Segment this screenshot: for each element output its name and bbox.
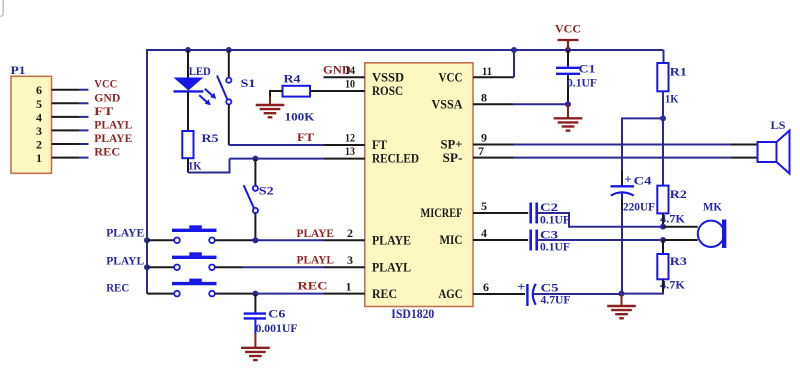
- microphone MK: [698, 200, 727, 249]
- wire P1 pin4 stub: [52, 116, 89, 118]
- capacitor C1: [556, 50, 597, 104]
- pin 4 stub (MIC): [473, 239, 528, 241]
- svg-text:LED: LED: [189, 64, 211, 78]
- wire P1 pin3 stub: [52, 129, 89, 131]
- wire C6 top lead: [254, 294, 256, 312]
- wire R3 top lead: [662, 240, 664, 254]
- svg-text:P1: P1: [11, 63, 26, 77]
- svg-text:REC: REC: [372, 286, 397, 301]
- pin 2 stub (PLAYE): [324, 239, 365, 241]
- svg-text:1K: 1K: [665, 92, 679, 106]
- wire LED anode from rail: [187, 50, 189, 78]
- svg-text:MK: MK: [703, 200, 723, 214]
- node rail-pin11 junction: [511, 47, 517, 53]
- pin 12 stub (FT): [324, 144, 365, 146]
- svg-text:PLAYL: PLAYL: [94, 117, 132, 131]
- pin names right column: [421, 70, 464, 302]
- ground at C6: [241, 334, 270, 361]
- svg-text:PLAYL: PLAYL: [372, 260, 411, 275]
- svg-text:LS: LS: [771, 118, 786, 132]
- svg-text:4: 4: [36, 110, 42, 124]
- svg-text:100K: 100K: [285, 109, 316, 123]
- resistor R2: [657, 186, 687, 226]
- capacitor C3: [531, 227, 570, 253]
- svg-text:11: 11: [482, 64, 492, 78]
- resistor R4: [283, 71, 316, 123]
- svg-text:ROSC: ROSC: [372, 83, 403, 98]
- capacitor C5 polarized: [517, 279, 571, 307]
- wire left button bus: [146, 49, 148, 294]
- pin 6 stub (AGC): [473, 293, 525, 295]
- wire C5 to AGC junction: [533, 293, 622, 295]
- svg-text:4: 4: [481, 226, 487, 240]
- svg-text:C6: C6: [268, 307, 285, 321]
- svg-text:PLAYL: PLAYL: [297, 253, 335, 267]
- capacitor C4: [611, 170, 656, 294]
- svg-text:3: 3: [347, 253, 353, 267]
- pin 1 stub (REC): [324, 293, 365, 295]
- svg-text:VCC: VCC: [94, 77, 117, 91]
- svg-text:R2: R2: [670, 187, 687, 201]
- node PLAYE net junction: [252, 237, 258, 243]
- svg-text:0.1UF: 0.1UF: [567, 75, 597, 89]
- wire R3 bottom to AGC net: [622, 279, 665, 293]
- svg-text:0.001UF: 0.001UF: [256, 321, 298, 335]
- push button PLAYE S3: [147, 225, 255, 243]
- node R1-C4 junction: [660, 115, 666, 121]
- svg-text:GND: GND: [94, 90, 120, 104]
- svg-text:RECLED: RECLED: [372, 151, 419, 166]
- svg-text:PLAYE: PLAYE: [372, 233, 411, 248]
- wire pin11 to rail: [513, 50, 515, 77]
- node rail-S1 junction: [226, 47, 232, 53]
- ground at R4: [256, 97, 285, 118]
- ground at C1: [554, 104, 583, 130]
- node rail-LED junction: [185, 47, 191, 53]
- wire S2 top: [254, 159, 256, 186]
- connector P1: [11, 63, 52, 173]
- node left-bus PLAYL junction: [144, 264, 150, 270]
- node REC-C6 junction: [252, 291, 258, 297]
- svg-text:1: 1: [36, 151, 42, 165]
- wire S2 bottom to PLAYE net: [254, 213, 256, 240]
- svg-text:+: +: [624, 172, 632, 187]
- svg-text:7: 7: [478, 144, 484, 158]
- pin 14 stub (VSSD): [324, 76, 365, 78]
- svg-text:R3: R3: [670, 254, 687, 268]
- svg-text:1K: 1K: [188, 158, 202, 172]
- resistor R5: [182, 131, 218, 172]
- pin 8 stub (VSSA): [473, 103, 568, 105]
- speaker LS: [758, 118, 790, 174]
- pin 9 stub (SP+): [473, 144, 758, 146]
- wire R1 junction down to R2: [662, 118, 664, 185]
- svg-text:PLAYE: PLAYE: [297, 226, 335, 240]
- LED D1: [174, 64, 217, 106]
- UI corner artifact top-left: [0, 0, 3, 16]
- svg-text:1: 1: [346, 279, 352, 293]
- capacitor C6: [244, 307, 298, 336]
- power VCC symbol: [558, 40, 579, 50]
- node RECLED-S2 junction: [252, 156, 258, 162]
- svg-text:0.1UF: 0.1UF: [540, 212, 570, 226]
- op-amp U1 ISD1820 body: [365, 63, 473, 321]
- wire VCC top rail: [147, 49, 664, 51]
- svg-text:+: +: [517, 279, 526, 294]
- svg-text:REC: REC: [106, 280, 129, 294]
- svg-text:14: 14: [345, 63, 355, 77]
- resistor R3: [657, 254, 687, 292]
- pin 10 stub (ROSC) wire from R4: [310, 90, 365, 92]
- node AGC ground junction: [619, 291, 625, 297]
- svg-text:S2: S2: [259, 184, 274, 198]
- svg-text:6: 6: [36, 83, 42, 97]
- svg-text:5: 5: [481, 199, 487, 213]
- svg-text:REC: REC: [298, 279, 328, 293]
- svg-text:9: 9: [481, 131, 487, 145]
- node VSSA-C1 ground junction: [565, 101, 571, 107]
- ground at AGC: [607, 294, 636, 319]
- svg-text:12: 12: [345, 131, 355, 145]
- wire S1 bottom to FT net: [229, 104, 324, 145]
- wire REC net to pin1: [255, 293, 324, 295]
- wire MICREF junction to MK: [663, 226, 698, 228]
- wire rail corner to R1: [663, 50, 665, 63]
- wire P1 pin2 stub: [52, 143, 89, 145]
- svg-text:6: 6: [483, 280, 489, 294]
- wire P1 pin6 stub: [52, 89, 89, 91]
- wire P1 pin1 stub: [52, 157, 89, 159]
- wire R1 bottom to junction: [662, 91, 664, 118]
- node MIC junction: [660, 237, 666, 243]
- node rail-VCC-C1 junction: [565, 47, 571, 53]
- svg-text:PLAYE: PLAYE: [106, 225, 144, 239]
- svg-text:10: 10: [345, 77, 355, 91]
- svg-text:ISD1820: ISD1820: [391, 307, 434, 321]
- svg-text:C1: C1: [579, 62, 596, 76]
- svg-text:VSSA: VSSA: [432, 97, 464, 112]
- pin 13 stub (RECLED): [324, 158, 365, 160]
- resistor R1: [657, 63, 687, 106]
- svg-text:0.1UF: 0.1UF: [540, 240, 570, 254]
- capacitor C2: [531, 200, 570, 226]
- svg-text:R4: R4: [284, 71, 301, 85]
- svg-text:VCC: VCC: [439, 70, 463, 85]
- wire S1 top from rail: [228, 50, 230, 78]
- wire R4 left to ground: [270, 91, 283, 97]
- wire junction to C4 column: [622, 118, 663, 170]
- svg-text:VCC: VCC: [555, 22, 581, 36]
- wire C3 to MIC net: [538, 239, 660, 241]
- svg-text:2: 2: [36, 138, 42, 152]
- svg-text:8: 8: [481, 90, 487, 104]
- svg-text:C4: C4: [634, 174, 652, 188]
- svg-text:R1: R1: [670, 65, 687, 79]
- pin 11 stub (VCC): [473, 76, 514, 78]
- wire R5 bottom jog to RECLED net: [188, 158, 324, 172]
- svg-text:2: 2: [347, 226, 353, 240]
- svg-text:PLAYL: PLAYL: [106, 253, 144, 267]
- wire R2 bottom to MICREF junction: [662, 213, 664, 226]
- svg-text:REC: REC: [94, 145, 120, 159]
- svg-text:MIC: MIC: [440, 232, 463, 247]
- node left-bus PLAYE junction: [144, 237, 150, 243]
- svg-text:PLAYE: PLAYE: [94, 131, 132, 145]
- pin 5 stub (MICREF): [473, 212, 528, 214]
- node MICREF junction: [660, 224, 666, 230]
- wire C2 to MICREF net jog: [538, 213, 660, 227]
- svg-text:FT: FT: [297, 130, 314, 144]
- svg-text:MICREF: MICREF: [421, 205, 463, 220]
- svg-text:SP-: SP-: [443, 150, 463, 165]
- pin 7 stub (SP-): [473, 157, 758, 159]
- svg-text:13: 13: [345, 144, 355, 158]
- svg-text:5: 5: [36, 97, 42, 111]
- switch S1: [217, 76, 256, 105]
- svg-text:3: 3: [36, 124, 42, 138]
- pin names left column: [372, 70, 419, 302]
- switch S2: [244, 184, 274, 214]
- wire PLAYE net to pin2: [255, 239, 324, 241]
- wire LED cathode to R5: [187, 91, 189, 131]
- svg-text:AGC: AGC: [439, 286, 463, 301]
- svg-text:R5: R5: [202, 131, 219, 145]
- svg-text:FT: FT: [94, 104, 113, 118]
- svg-text:220UF: 220UF: [623, 199, 655, 213]
- pin 3 stub (PLAYL): [324, 266, 365, 268]
- svg-text:S1: S1: [241, 76, 256, 90]
- wire MIC junction to MK: [663, 239, 698, 241]
- push button PLAYL S4: [147, 252, 324, 270]
- push button REC S5: [147, 279, 255, 297]
- wire P1 pin5 stub: [52, 102, 89, 104]
